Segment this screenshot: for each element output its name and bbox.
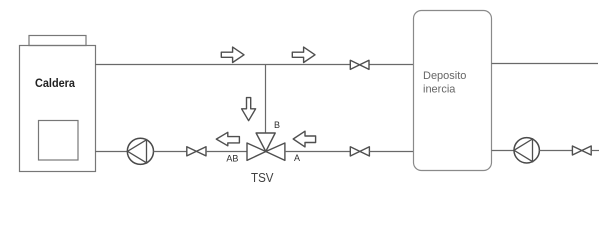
TSV right triangle [266,143,285,160]
pump P2 triangle [514,139,533,162]
TSV three-way valve left triangle [247,143,266,160]
svg-text:Deposito: Deposito [423,70,466,82]
wire vertical drop to TSV port B [265,65,267,134]
boiler burner door square [39,121,79,161]
flow arrow right #1 [221,47,244,62]
svg-text:Caldera: Caldera [35,76,75,90]
svg-text:B: B [274,120,280,130]
wire top supply pipe valve to tank [369,64,414,66]
flow arrow down [242,98,256,121]
svg-text:inercia: inercia [423,84,456,96]
wire TSV port A to valve [285,151,350,153]
flow arrow left #1 [216,132,239,146]
wire top supply pipe boiler to valve [95,64,350,66]
flow arrow left #2 [293,131,315,147]
valve bottom-right bowtie [572,146,591,155]
tank Deposito inercia [414,11,492,171]
svg-text:A: A [294,153,300,163]
wire bottom return boiler to pump [95,151,128,153]
valve bottom-left bowtie [187,147,206,156]
pump P1 triangle [128,140,147,163]
boiler chimney top [29,36,86,46]
svg-text:TSV: TSV [251,170,274,185]
wire valve to tank bottom port [369,151,413,153]
boiler Caldera body [20,46,96,172]
svg-text:AB: AB [226,154,238,164]
pump P2 circle [514,138,539,163]
flow arrow right #2 [292,47,315,62]
valve top bowtie [350,60,369,69]
wire valve to right edge [591,150,599,152]
wire pump to valve [154,151,188,153]
wire pump to valve [540,150,574,152]
valve bottom-middle bowtie [350,147,369,156]
wire tank top outlet to right edge [492,63,599,65]
wire valve to TSV port AB [206,151,247,153]
TSV top triangle port B [256,133,275,152]
wire tank bottom outlet to pump [492,150,515,152]
pump P1 circle [127,138,153,164]
